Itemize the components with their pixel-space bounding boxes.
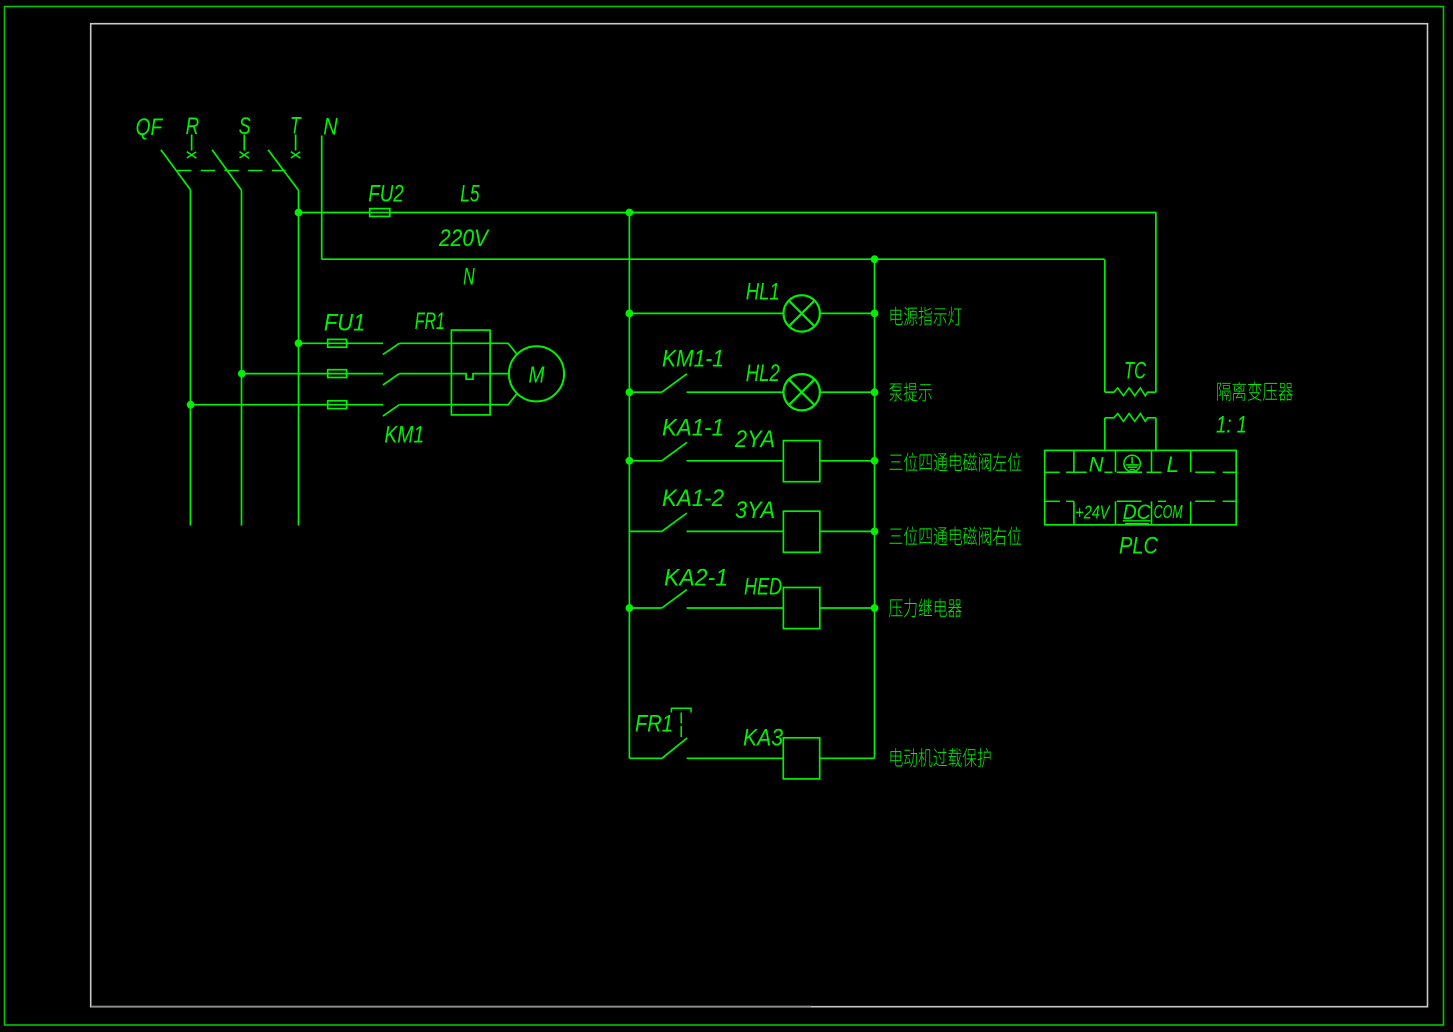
svg-text:M: M (529, 362, 546, 388)
wire rung5 middle (687, 607, 784, 609)
svg-text:TC: TC (1124, 358, 1146, 385)
svg-text:QF: QF (136, 114, 164, 141)
breaker QF pole R contact cross (187, 152, 197, 159)
contactor KM1 main contact pole2 (383, 374, 399, 385)
PLC terminal block outline (1045, 450, 1237, 524)
svg-text:2YA: 2YA (734, 426, 775, 453)
svg-text:N: N (1089, 453, 1105, 476)
wire motor lead phase1 (490, 343, 517, 354)
wire TC secondary right lead (1155, 418, 1157, 451)
svg-text:COM: COM (1154, 502, 1183, 522)
PLC row2 cell separators (1074, 501, 1191, 525)
transformer TC primary winding (1105, 388, 1156, 396)
wire phase1 through FR1 (451, 342, 490, 344)
contact KA1-2 (662, 513, 687, 531)
wire rung1 right (820, 312, 875, 314)
svg-text:+24V: +24V (1075, 503, 1111, 523)
breaker QF pole T lead-in (295, 135, 297, 151)
wire rung5 left (629, 607, 661, 609)
wire motor phase2 left (242, 373, 383, 375)
wire rung5 right (820, 607, 875, 609)
thermal FR1 bracket (671, 708, 691, 712)
wire left control rail (628, 213, 630, 759)
wire motor lead phase2 (490, 373, 509, 375)
node junction rung4 right (871, 528, 879, 536)
svg-text:KA1-1: KA1-1 (662, 415, 724, 442)
svg-text:FU1: FU1 (324, 310, 366, 337)
wire rung4 left (629, 530, 661, 532)
wire neutral N horizontal to PLC branch (322, 258, 1105, 260)
breaker QF pole S contact cross (240, 152, 250, 159)
breaker QF pole S blade (212, 150, 241, 191)
net label diandongji guozai baohu (890, 748, 902, 766)
wire phase2 to FR1 (399, 373, 451, 375)
motor M circle (509, 346, 564, 401)
wire right control rail (874, 259, 876, 758)
fuse FU1 pole3 (328, 401, 347, 409)
thermal overload FR1 heater box (451, 330, 490, 415)
wire rung2 middle (687, 391, 784, 393)
node junction rung1 right (871, 310, 879, 318)
wire rung4 middle (687, 530, 784, 532)
wire phase3 through FR1 (451, 404, 490, 406)
node junction T tap for FU2 (295, 209, 303, 217)
wire motor lead phase3 (490, 393, 517, 404)
svg-text:3YA: 3YA (735, 497, 775, 524)
fuse FU1 pole2 (328, 370, 347, 378)
node junction rung1 left (626, 310, 634, 318)
node junction left rail top (626, 209, 634, 217)
wire rung2 right (820, 391, 875, 393)
svg-text:220V: 220V (438, 225, 490, 252)
wire motor phase3 left (191, 404, 384, 406)
node junction rung2 right (871, 388, 879, 396)
wire motor phase1 left (299, 342, 384, 344)
PLC row1 cell separators (1074, 450, 1191, 472)
wire rung3 left (629, 460, 661, 462)
net label bengtishi (889, 384, 902, 402)
wire N drop to TC primary (1104, 259, 1106, 392)
contactor KM1 main contact pole3 (383, 405, 399, 416)
contact KA1-1 (662, 442, 687, 460)
wire phase S vertical (241, 190, 243, 525)
fuse FU2 (370, 209, 390, 217)
PLC protective earth symbol (1124, 455, 1140, 471)
svg-text:FR1: FR1 (415, 308, 445, 335)
wire rung3 middle (687, 460, 784, 462)
wire rung3 right (820, 460, 875, 462)
node junction R phase tap (187, 401, 195, 409)
net label sanwei sitong right (889, 529, 902, 544)
svg-text:N: N (323, 114, 338, 141)
node junction right rail top (871, 255, 879, 263)
svg-text:PLC: PLC (1119, 533, 1159, 560)
breaker QF linkage dashed line (177, 170, 286, 172)
contact KM1-1 (662, 374, 687, 392)
PLC row1 dashed terminal line (1045, 471, 1236, 473)
wire rung2 left (629, 391, 661, 393)
net label sanwei sitong left (889, 455, 902, 470)
svg-text:N: N (463, 264, 475, 291)
coil 3YA (783, 511, 819, 552)
lamp HL1 (784, 295, 820, 331)
coil 2YA (783, 441, 819, 482)
svg-text:HL1: HL1 (746, 279, 780, 306)
node junction T phase tap (295, 339, 303, 347)
svg-text:FU2: FU2 (368, 181, 404, 208)
node junction rung2 left (626, 388, 634, 396)
breaker QF pole R lead-in (191, 135, 193, 151)
wire phase R vertical (189, 190, 191, 526)
breaker QF pole R blade (161, 150, 191, 190)
breaker QF pole T blade (268, 150, 298, 191)
wire TC secondary left lead (1104, 418, 1106, 451)
fuse FU1 pole1 (328, 339, 347, 347)
svg-text:KA1-2: KA1-2 (662, 485, 724, 512)
breaker QF pole S lead-in (243, 135, 245, 151)
svg-text:FR1: FR1 (635, 711, 673, 738)
svg-text:1: 1: 1: 1 (1216, 412, 1247, 439)
wire neutral N vertical (321, 136, 323, 260)
lamp HL2 (784, 374, 820, 410)
svg-text:HED: HED (744, 574, 782, 601)
svg-text:KA2-1: KA2-1 (664, 565, 728, 592)
wire rung6 middle (687, 757, 784, 759)
thermal FR1 actuator dashes (680, 713, 682, 738)
contact KA2-1 (662, 590, 687, 608)
node junction rung5 right (871, 604, 879, 612)
wire L5 horizontal (299, 212, 1157, 214)
contactor KM1 main contact pole1 (383, 343, 399, 354)
net label dianyuan zhishideng (890, 307, 902, 325)
node junction rung3 left (626, 457, 634, 465)
wire rung6 right (820, 757, 875, 759)
coil KA3 (783, 738, 819, 779)
wire rung6 left (629, 757, 662, 759)
svg-text:L5: L5 (460, 181, 480, 208)
svg-text:KM1: KM1 (384, 422, 424, 449)
svg-text:KA3: KA3 (743, 725, 784, 752)
transformer TC secondary winding (1105, 414, 1156, 422)
PLC row2 dashed terminal line (1045, 500, 1236, 502)
node junction S phase tap (238, 370, 246, 378)
svg-text:L: L (1167, 452, 1179, 477)
coil HED (783, 588, 819, 629)
contact FR1 thermal blade (662, 738, 687, 758)
wire L5 drop to TC primary (1155, 213, 1157, 393)
wire phase3 to FR1 (399, 404, 451, 406)
PLC DC double underline (1123, 520, 1151, 522)
wire phase1 to FR1 (399, 342, 451, 344)
node junction rung5 left (626, 604, 634, 612)
wire phase T vertical (298, 190, 300, 525)
wire rung4 right (820, 530, 875, 532)
wire phase2 through FR1 with heater notch (451, 374, 490, 380)
svg-text:KM1-1: KM1-1 (662, 346, 724, 373)
wire rung1 left (629, 312, 783, 314)
node junction rung3 right (871, 457, 879, 465)
breaker QF pole T contact cross (291, 152, 301, 159)
label geli bianyaqi (1217, 383, 1230, 401)
net label yali jidianqi (889, 599, 902, 617)
svg-text:HL2: HL2 (746, 360, 780, 387)
